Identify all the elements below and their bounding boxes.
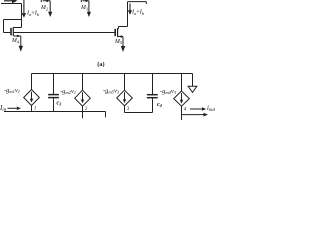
svg-text:-gm2v1: -gm2v1 <box>60 88 76 95</box>
svg-text:-gm5v3: -gm5v3 <box>103 88 120 95</box>
svg-text:(a): (a) <box>97 61 104 68</box>
svg-text:Ia+Ib: Ia+Ib <box>131 9 145 16</box>
svg-text:Ia+Ib: Ia+Ib <box>26 10 40 17</box>
svg-text:3: 3 <box>127 107 130 112</box>
svg-text:M5: M5 <box>114 39 122 45</box>
svg-text:4: 4 <box>184 108 187 113</box>
svg-text:c4: c4 <box>157 102 163 108</box>
svg-text:M4: M4 <box>11 38 19 44</box>
svg-text:-gm1v1: -gm1v1 <box>4 87 20 94</box>
svg-text:M3: M3 <box>80 5 88 11</box>
svg-text:c3: c3 <box>57 101 63 107</box>
svg-text:-gm4v3: -gm4v3 <box>160 88 177 95</box>
svg-text:iout: iout <box>207 105 215 113</box>
svg-text:Iin: Iin <box>0 105 7 113</box>
svg-text:M2: M2 <box>40 5 48 11</box>
svg-text:1: 1 <box>34 107 36 112</box>
